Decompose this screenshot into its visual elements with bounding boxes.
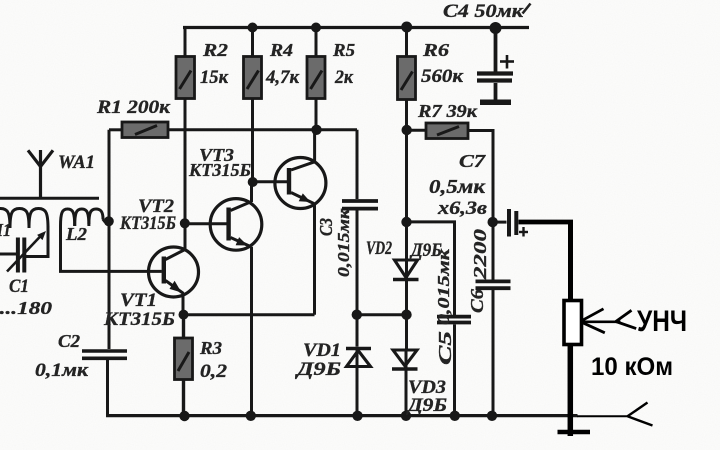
svg-text:R1 200к: R1 200к bbox=[96, 97, 172, 118]
potentiometer 10k bbox=[564, 301, 582, 345]
wire R4 top stem bbox=[251, 28, 254, 57]
wiper arrow and UNCH connector bbox=[582, 309, 604, 321]
node junction dot R6/R7 bbox=[402, 125, 412, 135]
wire VT1 emitter stem bbox=[182, 294, 185, 315]
node junction dot C6 rail bbox=[487, 411, 497, 421]
svg-text:Л1: Л1 bbox=[0, 220, 11, 240]
svg-text:0,2: 0,2 bbox=[200, 361, 228, 382]
svg-text:4,7к: 4,7к bbox=[265, 67, 300, 88]
capacitor C5 bbox=[437, 317, 471, 416]
svg-text:Д9Б: Д9Б bbox=[406, 395, 447, 416]
resistor R5 bbox=[307, 57, 325, 99]
svg-text:2200: 2200 bbox=[470, 229, 490, 280]
inductor L1 bbox=[0, 209, 48, 229]
svg-text:КТ315Б: КТ315Б bbox=[188, 160, 251, 180]
node junction dot R3 top bbox=[179, 310, 189, 320]
svg-text:УНЧ: УНЧ bbox=[637, 305, 687, 338]
svg-text:C1: C1 bbox=[9, 276, 29, 297]
wire R6 top stem bbox=[405, 27, 408, 57]
transistor VT2 bbox=[186, 199, 262, 251]
wire R5 bottom stem bbox=[315, 99, 318, 131]
svg-text:15к: 15к bbox=[200, 67, 229, 88]
svg-text:C6: C6 bbox=[467, 289, 487, 313]
node junction dot C4 top bbox=[490, 22, 502, 34]
label C4 value bbox=[443, 1, 531, 22]
node junction dot VT2 base bbox=[180, 218, 190, 228]
svg-text:С4 50мк: С4 50мк bbox=[443, 1, 525, 22]
svg-text:5...180: 5...180 bbox=[0, 298, 52, 318]
wire R5 top stem bbox=[315, 28, 318, 57]
wire VT3 collector stem bbox=[313, 130, 316, 162]
svg-text:R6: R6 bbox=[422, 40, 449, 60]
wire C1 left stub bbox=[0, 253, 16, 256]
svg-text:R2: R2 bbox=[202, 40, 228, 60]
wire bottom ground rail bbox=[106, 414, 578, 417]
node junction dot R3 bottom rail bbox=[179, 411, 189, 421]
wire L1 right leg bbox=[26, 226, 48, 257]
diode VD1 bbox=[346, 349, 371, 416]
node junction dot R6 top bbox=[401, 22, 412, 33]
svg-text:10 кОм: 10 кОм bbox=[591, 353, 673, 381]
capacitor C4 bbox=[477, 28, 514, 102]
svg-text:C3: C3 bbox=[316, 218, 336, 236]
svg-text:VD1: VD1 bbox=[303, 340, 341, 361]
ground symbol bbox=[558, 430, 591, 435]
wire VT1 collector stem bbox=[184, 223, 187, 250]
svg-text:C5: C5 bbox=[435, 331, 455, 365]
node junction dot C3/VD1 bbox=[352, 310, 362, 320]
svg-text:2к: 2к bbox=[334, 67, 354, 88]
svg-text:0,015мк: 0,015мк bbox=[434, 249, 453, 325]
node junction dot C7 left bbox=[488, 217, 498, 227]
wire thick audio lead C7 to potentiometer bbox=[519, 220, 574, 225]
resistor R7 bbox=[407, 123, 469, 139]
node junction dot R5/VT3 collector bbox=[311, 125, 321, 135]
svg-text:VT1: VT1 bbox=[120, 290, 157, 311]
svg-text:0,015мк: 0,015мк bbox=[334, 209, 353, 277]
diode VD3 bbox=[392, 315, 418, 416]
wire L2 left leg to VT1 base bbox=[61, 226, 162, 271]
antenna WA1 bbox=[28, 150, 53, 199]
wire C5 top net bbox=[407, 222, 455, 315]
wire VT2 collector stem bbox=[250, 182, 253, 202]
capacitor C2 bbox=[82, 351, 127, 358]
wire diode net C3 to VD2 column bbox=[357, 313, 407, 316]
capacitor C7 coupling electrolytic bbox=[493, 209, 528, 237]
svg-text:Д9Б: Д9Б bbox=[294, 359, 341, 380]
svg-text:0,1мк: 0,1мк bbox=[35, 360, 90, 381]
wire R2 top stem bbox=[184, 28, 187, 57]
node junction dot VD1 rail bbox=[352, 411, 362, 421]
resistor R3 bbox=[175, 315, 193, 416]
wire R7 right corner down bbox=[468, 131, 493, 281]
capacitor C3 bbox=[342, 130, 378, 347]
svg-text:КТ315Б: КТ315Б bbox=[103, 309, 175, 330]
svg-text:WA1: WA1 bbox=[58, 152, 95, 173]
svg-text:L2: L2 bbox=[65, 224, 87, 244]
wire top supply rail bbox=[183, 26, 529, 29]
wire antenna feed bbox=[0, 197, 99, 200]
wire R6 bottom stem bbox=[405, 100, 408, 131]
node junction dot R5 top bbox=[311, 23, 321, 33]
svg-text:х6,3в: х6,3в bbox=[437, 198, 488, 219]
wire thin rail extension with connector arrow bbox=[577, 415, 628, 417]
inductor L2 bbox=[61, 209, 109, 226]
node junction dot VD2/VD3 bbox=[401, 310, 411, 320]
wire R2 bottom column down to VT2 base node bbox=[184, 99, 187, 224]
capacitor C1 variable bbox=[7, 231, 46, 273]
node junction dot VD2 column y222 bbox=[401, 217, 411, 227]
wire VT2 emitter column to ground rail bbox=[250, 247, 253, 416]
wire horizontal net R1 right to C3 top bbox=[166, 128, 357, 131]
node junction dot VT2 emitter rail bbox=[246, 411, 256, 421]
wire C2 bottom corner to ground rail bbox=[106, 358, 109, 415]
resistor R1 bbox=[109, 122, 168, 138]
svg-text:R5: R5 bbox=[332, 40, 355, 60]
node junction dot VT3 base / VT2 collector bbox=[248, 177, 258, 187]
capacitor C6 bbox=[476, 281, 511, 415]
node junction dot R4 top bbox=[248, 23, 258, 33]
svg-text:КТ315Б: КТ315Б bbox=[119, 214, 176, 234]
resistor R4 bbox=[244, 57, 262, 99]
diode VD2 bbox=[393, 260, 419, 315]
transistor VT1 bbox=[149, 247, 199, 297]
svg-text:VD2: VD2 bbox=[366, 238, 392, 259]
wire R1 left column down to C2 bbox=[108, 130, 111, 349]
node junction dot VD3 rail bbox=[401, 411, 411, 421]
svg-text:C7: C7 bbox=[459, 151, 486, 171]
svg-text:R7 39к: R7 39к bbox=[417, 101, 478, 121]
svg-text:0,5мк: 0,5мк bbox=[429, 176, 486, 198]
resistor R6 bbox=[398, 57, 416, 100]
resistor R2 bbox=[176, 57, 195, 99]
svg-text:C2: C2 bbox=[58, 331, 80, 351]
wire VT3 emitter stem bbox=[313, 204, 316, 315]
node junction dot C5 rail bbox=[450, 411, 460, 421]
wire emitter net VT1/R3 to VT3 bbox=[184, 313, 315, 316]
svg-text:560к: 560к bbox=[421, 66, 464, 87]
wire R4 bottom column down to VT3 base node bbox=[251, 99, 254, 183]
wire R6 column down VD2 VD3 bbox=[405, 130, 408, 260]
node junction dot L2 right end bbox=[104, 216, 114, 226]
svg-text:R4: R4 bbox=[269, 40, 293, 60]
svg-text:R3: R3 bbox=[199, 338, 222, 358]
transistor VT3 bbox=[253, 158, 326, 209]
